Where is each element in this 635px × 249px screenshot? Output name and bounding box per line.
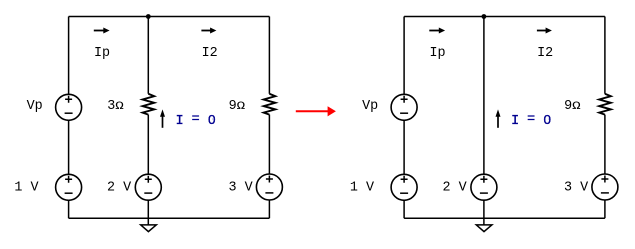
label I = 0 (left circuit)	[176, 112, 216, 129]
label 9Ω (right circuit)	[564, 99, 581, 114]
wire: bottom horizontal (right circuit)	[404, 217, 605, 219]
label I = 0 (right circuit)	[511, 112, 551, 129]
svg-text:Ip: Ip	[94, 46, 110, 61]
voltage source 2 V (left circuit)	[135, 174, 161, 200]
label 3 V (right circuit)	[564, 180, 588, 195]
svg-text:3 V: 3 V	[229, 180, 253, 195]
node: junction dot middle branch top (left circuit)	[146, 14, 151, 19]
voltage source 3 V (right circuit)	[592, 174, 618, 200]
current arrow I=0 up (left circuit)	[160, 109, 165, 127]
wire: right branch lower segment (right circuit)	[604, 115, 606, 219]
label 1 V (right circuit)	[350, 180, 374, 195]
label Ip (right circuit)	[430, 46, 446, 61]
svg-text:Ip: Ip	[430, 46, 446, 61]
wire: right branch upper segment (left circuit)	[268, 17, 270, 94]
resistor 9Ω (right circuit)	[599, 94, 611, 115]
label 9Ω (left circuit)	[229, 99, 246, 114]
current arrow I2 (right circuit)	[537, 28, 552, 34]
svg-text:I2: I2	[202, 46, 218, 61]
wire: top horizontal (left circuit)	[69, 16, 270, 18]
svg-text:9Ω: 9Ω	[229, 99, 246, 114]
voltage source 1 V (left circuit)	[56, 174, 82, 200]
voltage source 3 V (left circuit)	[256, 174, 282, 200]
wire: right branch lower segment (left circuit)	[268, 115, 270, 219]
svg-text:I2: I2	[537, 46, 553, 61]
svg-text:Vp: Vp	[362, 99, 378, 114]
wire: middle branch upper segment (left circuit)	[147, 17, 149, 94]
svg-text:2 V: 2 V	[443, 180, 467, 195]
wire: right branch upper segment (right circuit)	[604, 17, 606, 94]
transformation arrow (red)	[296, 106, 336, 116]
wire: left branch vertical (left circuit)	[68, 17, 70, 219]
voltage source Vp (left circuit)	[56, 94, 82, 120]
wire: bottom horizontal (left circuit)	[69, 217, 270, 219]
current arrow I=0 up (right circuit)	[496, 109, 501, 127]
current arrow I2 (left circuit)	[201, 28, 216, 34]
wire: middle branch lower segment (left circuit)	[147, 115, 149, 219]
svg-text:Vp: Vp	[27, 99, 43, 114]
voltage source Vp (right circuit)	[391, 94, 417, 120]
svg-text:9Ω: 9Ω	[564, 99, 581, 114]
label Vp (right circuit)	[362, 99, 378, 114]
svg-text:I = 0: I = 0	[176, 112, 216, 129]
label 1 V (left circuit)	[14, 180, 38, 195]
ground (left circuit)	[141, 218, 157, 231]
resistor 9Ω (left circuit)	[264, 94, 276, 115]
label 3 V (left circuit)	[229, 180, 253, 195]
svg-text:I = 0: I = 0	[511, 112, 551, 129]
svg-text:2 V: 2 V	[107, 180, 131, 195]
voltage source 2 V (right circuit)	[471, 174, 497, 200]
current arrow Ip (right circuit)	[429, 28, 445, 34]
wire: middle branch vertical, no resistor (right circuit)	[483, 17, 485, 219]
label I2 (right circuit)	[537, 46, 553, 61]
node: junction dot middle branch top (right circuit)	[482, 14, 487, 19]
label 2 V (right circuit)	[443, 180, 467, 195]
label 2 V (left circuit)	[107, 180, 131, 195]
label Ip (left circuit)	[94, 46, 110, 61]
label 3Ω (left circuit)	[107, 99, 124, 114]
svg-text:3Ω: 3Ω	[107, 99, 124, 114]
svg-text:1 V: 1 V	[14, 180, 38, 195]
label I2 (left circuit)	[202, 46, 218, 61]
wire: left branch vertical (right circuit)	[403, 17, 405, 219]
ground (right circuit)	[476, 218, 492, 231]
label Vp (left circuit)	[27, 99, 43, 114]
current arrow Ip (left circuit)	[94, 28, 110, 34]
wire: top horizontal (right circuit)	[404, 16, 605, 18]
resistor 3Ω (left circuit)	[143, 94, 155, 115]
svg-text:3 V: 3 V	[564, 180, 588, 195]
svg-text:1 V: 1 V	[350, 180, 374, 195]
voltage source 1 V (right circuit)	[391, 174, 417, 200]
